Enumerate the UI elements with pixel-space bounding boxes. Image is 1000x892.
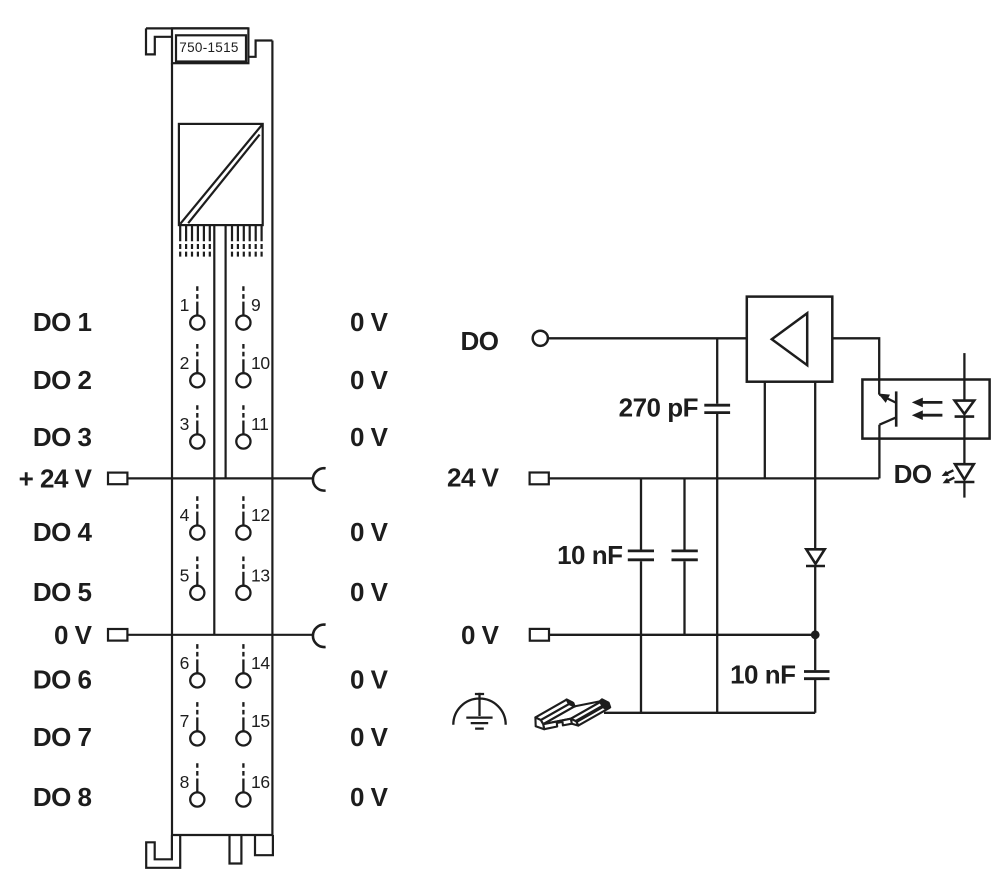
junction node dot <box>811 630 820 639</box>
internal bus column line left <box>213 225 215 635</box>
ground rail wire <box>604 712 815 714</box>
capacitor C1 270 pF bottom lead <box>716 414 718 713</box>
svg-text:DO 6: DO 6 <box>33 665 92 695</box>
0 V rail wire <box>549 634 815 636</box>
terminal pin 1 contact circle <box>190 316 204 330</box>
svg-text:0 V: 0 V <box>350 365 389 395</box>
optocoupler LED triangle <box>955 401 975 414</box>
24 V rail wire <box>549 477 879 479</box>
bus pin stubs solid <box>180 225 261 241</box>
svg-text:10 nF: 10 nF <box>557 540 622 570</box>
svg-text:0 V: 0 V <box>461 620 500 650</box>
svg-text:2: 2 <box>180 353 189 373</box>
svg-text:9: 9 <box>251 295 260 315</box>
svg-text:DO 3: DO 3 <box>33 422 92 452</box>
LED flash arrow lower <box>948 478 955 481</box>
electronics block diagonal 2 <box>188 135 259 224</box>
terminal pin 5 contact circle <box>190 586 204 600</box>
terminal pin 9 stem <box>242 286 244 302</box>
light arrow lower <box>922 414 942 417</box>
svg-text:DO 8: DO 8 <box>33 782 92 812</box>
svg-text:7: 7 <box>180 711 189 731</box>
svg-text:DO: DO <box>894 459 932 489</box>
+24 V feed terminal square <box>108 473 127 485</box>
terminal pin 16 stem <box>242 763 244 779</box>
0 V rail wire <box>127 634 314 636</box>
optocoupler LED cathode bar <box>955 415 975 418</box>
capacitor C1 270 pF top lead <box>716 338 718 404</box>
svg-text:0 V: 0 V <box>350 422 389 452</box>
svg-text:DO 4: DO 4 <box>33 517 93 547</box>
din rail right flange outer face <box>576 704 609 726</box>
wire optocoupler LED to status LED <box>963 417 965 465</box>
svg-text:DO 7: DO 7 <box>33 722 92 752</box>
capacitor C3 10 nF top lead <box>683 478 685 549</box>
din rail left flange inner face <box>541 702 575 724</box>
svg-text:8: 8 <box>180 772 189 792</box>
terminal pin 13 contact circle <box>236 586 250 600</box>
svg-text:0 V: 0 V <box>350 722 389 752</box>
terminal pin 14 stem <box>242 644 244 660</box>
DO input terminal circle <box>533 331 548 346</box>
svg-text:270 pF: 270 pF <box>619 393 698 423</box>
capacitor C4 10 nF top lead <box>814 635 816 670</box>
LED flash arrow upper <box>947 470 954 473</box>
svg-text:3: 3 <box>180 414 189 434</box>
capacitor C2 10 nF top lead <box>640 478 642 549</box>
din rail right flange far cap <box>600 699 611 708</box>
svg-text:12: 12 <box>251 505 270 525</box>
terminal pin 12 contact circle <box>236 526 250 540</box>
svg-text:+ 24 V: + 24 V <box>19 463 93 493</box>
din rail left flange top face <box>535 700 572 721</box>
+24 V rail wire <box>127 477 314 479</box>
terminal pin 2 stem <box>196 344 198 360</box>
capacitor C2 10 nF plates <box>628 551 654 560</box>
electronics block diagonal 1 <box>180 125 262 224</box>
svg-text:15: 15 <box>251 711 270 731</box>
wire amplifier lower-left to 24 V rail <box>764 382 766 479</box>
terminal pin 2 contact circle <box>190 373 204 387</box>
svg-text:DO: DO <box>461 326 499 356</box>
terminal pin 10 stem <box>242 344 244 360</box>
phototransistor emitter lead <box>879 418 895 425</box>
module 750-1515 body outline <box>146 28 273 835</box>
module terminals group <box>180 286 271 806</box>
phototransistor collector lead <box>879 395 895 403</box>
svg-text:6: 6 <box>180 653 189 673</box>
diode D1 cathode bar <box>806 565 825 568</box>
din rail channel floor <box>543 701 602 724</box>
svg-text:750-1515: 750-1515 <box>179 40 238 55</box>
bottom prong right <box>255 835 273 855</box>
din rail right flange shadow edge <box>576 704 607 722</box>
svg-text:11: 11 <box>251 414 269 434</box>
svg-text:DO 2: DO 2 <box>33 365 92 395</box>
terminal pin 3 contact circle <box>190 434 204 448</box>
svg-text:0 V: 0 V <box>54 620 93 650</box>
svg-text:24 V: 24 V <box>447 463 500 493</box>
status LED DO cathode bar <box>954 481 974 484</box>
din rail left flange far cap <box>567 699 575 706</box>
svg-text:DO 5: DO 5 <box>33 577 92 607</box>
bottom prong middle <box>230 835 242 864</box>
svg-text:0 V: 0 V <box>350 307 389 337</box>
capacitor C1 270 pF plates <box>704 405 730 412</box>
svg-text:5: 5 <box>180 565 189 585</box>
wire amplifier lower-right to diode D1 <box>814 382 816 550</box>
capacitor C3 10 nF plates <box>672 551 698 560</box>
terminal pin 11 contact circle <box>236 434 250 448</box>
terminal pin 11 stem <box>242 405 244 421</box>
svg-text:0 V: 0 V <box>350 665 389 695</box>
terminal pin 16 contact circle <box>236 792 250 806</box>
wire DO input to amplifier <box>548 337 747 339</box>
din rail right flange top face <box>571 701 608 722</box>
terminal pin 6 stem <box>196 644 198 660</box>
terminal pin 12 stem <box>242 496 244 512</box>
svg-text:DO 1: DO 1 <box>33 307 92 337</box>
din rail left end face <box>535 717 544 729</box>
terminal pin 8 contact circle <box>190 792 204 806</box>
optocoupler OK1 box <box>862 380 989 439</box>
svg-text:16: 16 <box>251 772 270 792</box>
terminal pin 10 contact circle <box>236 373 250 387</box>
wire amplifier output to optocoupler collector <box>832 338 879 394</box>
svg-text:10 nF: 10 nF <box>730 659 795 689</box>
capacitor C2 10 nF bottom lead <box>640 561 642 713</box>
phototransistor base bar <box>895 391 898 426</box>
svg-text:0 V: 0 V <box>350 517 389 547</box>
terminal pin 15 contact circle <box>236 731 250 745</box>
wire diode D1 to junction <box>814 566 816 635</box>
terminal pin 13 stem <box>242 557 244 573</box>
din rail right near end face <box>571 719 578 726</box>
electronics block U0 <box>179 124 263 225</box>
terminal pin 6 contact circle <box>190 673 204 687</box>
+24 V rail connector arc <box>313 468 326 490</box>
marking label box 750-1515 <box>172 28 248 63</box>
amplifier triangle <box>772 313 807 365</box>
capacitor C3 10 nF bottom lead <box>683 561 685 635</box>
svg-text:4: 4 <box>180 505 190 525</box>
0 V feed terminal square <box>108 629 127 641</box>
internal bus column line right <box>225 225 227 478</box>
light arrow upper <box>922 401 942 404</box>
terminal pin 8 stem <box>196 763 198 779</box>
svg-text:0 V: 0 V <box>350 782 389 812</box>
svg-text:0 V: 0 V <box>350 577 389 607</box>
earth ground symbol <box>453 693 505 729</box>
terminal pin 14 contact circle <box>236 673 250 687</box>
amplifier block <box>747 297 833 382</box>
capacitor C4 10 nF bottom lead <box>814 680 816 713</box>
status LED DO triangle <box>955 464 974 479</box>
terminal pin 1 stem <box>196 286 198 302</box>
din rail web front face with notch <box>543 719 572 730</box>
capacitor C4 10 nF plates <box>804 672 830 679</box>
optocoupler LED top stub wire <box>963 353 965 400</box>
24 V terminal square <box>530 473 549 485</box>
terminal pin 7 stem <box>196 702 198 718</box>
terminal pin 9 contact circle <box>236 316 250 330</box>
svg-text:10: 10 <box>251 353 270 373</box>
svg-text:14: 14 <box>251 653 270 673</box>
terminal pin 7 contact circle <box>190 731 204 745</box>
svg-text:13: 13 <box>251 565 270 585</box>
status LED bottom stub wire <box>963 482 965 498</box>
DIN rail symbol <box>535 699 610 729</box>
wire emitter to 24 V rail <box>878 425 880 479</box>
terminal pin 5 stem <box>196 557 198 573</box>
terminal pin 4 contact circle <box>190 526 204 540</box>
0 V terminal square <box>530 629 549 641</box>
phototransistor collector arrowhead <box>880 394 889 401</box>
bus pin stubs dashed <box>180 244 261 257</box>
diode D1 <box>806 549 824 564</box>
terminal pin 4 stem <box>196 496 198 512</box>
0 V rail connector arc <box>313 625 326 647</box>
terminal pin 3 stem <box>196 405 198 421</box>
left mounting foot hook <box>146 835 180 868</box>
terminal pin 15 stem <box>242 702 244 718</box>
svg-text:1: 1 <box>180 295 189 315</box>
